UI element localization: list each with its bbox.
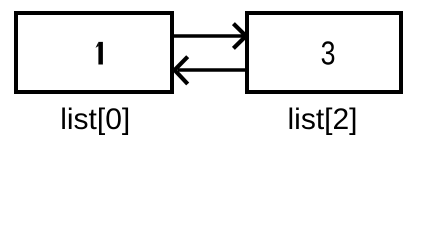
arrowhead: top arrow pointing right into list[2] <box>233 24 246 49</box>
label list[0] <box>60 103 130 137</box>
value digit 3 in node list[2] <box>320 37 335 70</box>
arrowhead: bottom arrow pointing left into list[0] <box>175 57 188 84</box>
wire: bottom arrow shaft (list[2] to list[0]) <box>178 68 246 72</box>
node box list[2] <box>245 11 403 94</box>
arrows and digit-1 drawing layer <box>0 0 426 148</box>
wire: top arrow shaft (list[0] to list[2]) <box>172 34 243 38</box>
label list[2] <box>288 103 358 137</box>
node box list[0] <box>14 11 174 94</box>
value digit 1 in node list[0] <box>96 42 103 65</box>
